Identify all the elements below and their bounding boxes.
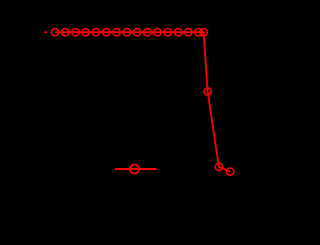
node marker 7 <box>113 29 120 36</box>
node marker 11 <box>154 29 161 36</box>
node marker 5 <box>92 29 99 36</box>
wire left stub <box>44 31 47 33</box>
node marker 3 <box>72 29 79 36</box>
node marker 17 <box>204 88 211 95</box>
wire legend sample line <box>115 168 157 170</box>
wire data line <box>55 32 230 171</box>
node marker 9 <box>133 29 140 36</box>
node marker 1 <box>51 29 58 36</box>
node marker 14 <box>185 29 192 36</box>
node marker 16 <box>200 29 207 36</box>
node marker 12 <box>164 29 171 36</box>
node marker 2 <box>62 29 69 36</box>
node legend marker <box>130 165 139 174</box>
node marker 13 <box>174 29 181 36</box>
node marker 8 <box>123 29 130 36</box>
node marker 15 <box>195 29 202 36</box>
node marker 18 <box>215 163 222 170</box>
node marker 10 <box>144 29 151 36</box>
node marker 4 <box>82 29 89 36</box>
node marker 6 <box>103 29 110 36</box>
node marker 19 <box>227 168 234 175</box>
